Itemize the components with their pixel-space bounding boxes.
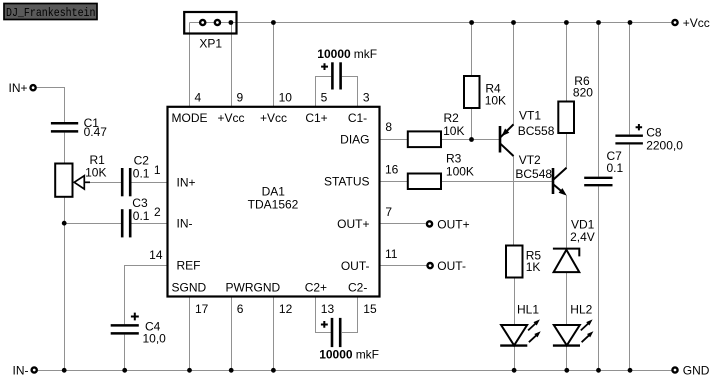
- svg-text:R2: R2: [444, 111, 460, 125]
- svg-text:STATUS: STATUS: [324, 175, 370, 189]
- svg-text:10000: 10000: [317, 47, 351, 61]
- svg-text:OUT-: OUT-: [341, 259, 370, 273]
- svg-text:14: 14: [149, 248, 163, 262]
- svg-text:HL2: HL2: [570, 302, 592, 316]
- svg-text:HL1: HL1: [517, 302, 539, 316]
- LED HL2: [553, 302, 594, 345]
- svg-text:0.47: 0.47: [84, 125, 108, 139]
- node junction pin6 GND: [229, 368, 234, 373]
- svg-text:4: 4: [195, 90, 202, 104]
- node junction C8 GND: [628, 368, 633, 373]
- wire VT2 emitter to VD1: [566, 196, 568, 249]
- terminal OUT-: [428, 259, 466, 273]
- svg-text:16: 16: [385, 163, 399, 177]
- svg-text:DJ_Frankeshtein: DJ_Frankeshtein: [6, 6, 96, 20]
- wire R2 to VT1 base: [441, 139, 499, 141]
- svg-text:C8: C8: [646, 126, 662, 140]
- svg-text:0.1: 0.1: [133, 209, 150, 223]
- svg-text:REF: REF: [177, 259, 201, 273]
- resistor R3: [408, 152, 474, 189]
- svg-text:OUT+: OUT+: [437, 217, 469, 231]
- capacitor 10000 mkF top: [317, 47, 377, 90]
- wire HL1 to GND: [514, 346, 516, 371]
- node junction C7 top: [596, 20, 601, 25]
- svg-text:8: 8: [385, 120, 392, 134]
- svg-text:IN-: IN-: [13, 363, 29, 377]
- wire pin15 bracket: [342, 297, 358, 333]
- svg-text:10000: 10000: [319, 347, 353, 361]
- capacitor C3: [122, 196, 150, 237]
- svg-text:3: 3: [363, 90, 370, 104]
- op-amp U1 IC DA1 TDA1562 body: [168, 107, 380, 297]
- wire +Vcc top rail: [190, 22, 672, 24]
- wire pin13 bracket: [316, 297, 332, 333]
- diode VD1 zener: [553, 218, 595, 273]
- svg-text:5: 5: [321, 90, 328, 104]
- svg-text:100K: 100K: [446, 165, 474, 179]
- node junction VT1 emitter rail: [511, 20, 516, 25]
- svg-text:mkF: mkF: [354, 47, 377, 61]
- svg-text:IN+: IN+: [8, 81, 27, 95]
- svg-text:C2: C2: [134, 154, 150, 168]
- wire HL2 to GND: [566, 346, 568, 371]
- terminal +Vcc: [672, 16, 709, 30]
- wire R5 to HL1: [514, 278, 516, 326]
- node junction HL2 GND: [564, 368, 569, 373]
- svg-text:6: 6: [237, 302, 244, 316]
- wire R4 bottom: [471, 108, 473, 140]
- wire C7 top: [598, 23, 600, 177]
- wire R6 top: [566, 23, 568, 102]
- svg-text:10K: 10K: [85, 165, 106, 179]
- svg-text:0.1: 0.1: [607, 161, 624, 175]
- svg-text:OUT+: OUT+: [337, 217, 369, 231]
- svg-text:10K: 10K: [485, 93, 506, 107]
- wire IN- to C3: [65, 223, 122, 225]
- svg-text:MODE: MODE: [172, 111, 208, 125]
- resistor R4: [464, 76, 506, 108]
- wire C2 to pin1: [131, 182, 167, 184]
- svg-text:11: 11: [385, 247, 398, 261]
- wire GND bottom rail: [38, 370, 671, 372]
- svg-text:C2-: C2-: [348, 281, 367, 295]
- wire REF to C4: [125, 266, 168, 325]
- node junction C4 GND: [122, 368, 127, 373]
- wire R1 wiper to C2: [88, 182, 121, 184]
- svg-text:OUT-: OUT-: [437, 259, 466, 273]
- wire pin17 drop: [189, 297, 191, 371]
- node junction C7 GND: [596, 368, 601, 373]
- wire OUT- stub: [380, 265, 427, 267]
- node junction XP1 out: [229, 20, 234, 25]
- svg-text:BC548: BC548: [515, 167, 552, 181]
- wire OUT+ stub: [380, 223, 426, 225]
- wire R3 to VT2 base: [441, 181, 552, 183]
- node junction R6 top: [564, 20, 569, 25]
- node junction IN- left: [62, 221, 67, 226]
- svg-text:10: 10: [279, 90, 293, 104]
- wire XP1 pin9 drop: [231, 23, 233, 107]
- svg-text:2200,0: 2200,0: [646, 139, 683, 153]
- svg-text:IN+: IN+: [177, 176, 196, 190]
- wire pin6 drop: [231, 297, 233, 371]
- capacitor 10000 mkF bottom: [319, 318, 379, 361]
- terminal GND: [672, 363, 709, 377]
- svg-text:17: 17: [195, 302, 209, 316]
- svg-text:820: 820: [573, 85, 593, 99]
- node junction R2 R4 VT1: [469, 137, 474, 142]
- svg-text:DA1: DA1: [262, 184, 286, 198]
- wire C8 bottom: [629, 145, 631, 371]
- svg-text:IN-: IN-: [177, 217, 193, 231]
- wire pin5 bracket: [316, 77, 332, 107]
- wire STATUS to R3: [380, 181, 408, 183]
- wire VT1 emitter to +Vcc: [513, 23, 515, 125]
- resistor R2: [408, 111, 465, 147]
- wire VT1 collector to R5: [513, 156, 515, 246]
- capacitor C2: [122, 154, 150, 197]
- wire C1 to R1: [64, 133, 66, 164]
- svg-text:10,0: 10,0: [143, 332, 167, 346]
- svg-text:PWRGND: PWRGND: [226, 281, 281, 295]
- terminal IN-: [13, 363, 37, 377]
- svg-text:12: 12: [279, 302, 293, 316]
- svg-text:DIAG: DIAG: [340, 133, 369, 147]
- capacitor C7: [584, 149, 623, 185]
- svg-text:13: 13: [321, 302, 335, 316]
- transistor VT1 BC558: [500, 109, 555, 157]
- wire C3 to pin2: [131, 223, 167, 225]
- node junction C8 top: [628, 20, 633, 25]
- svg-text:XP1: XP1: [199, 37, 222, 51]
- svg-text:TDA1562: TDA1562: [248, 198, 299, 212]
- wire C8 top: [629, 23, 631, 135]
- svg-text:GND: GND: [683, 363, 710, 377]
- wire pin10 drop: [273, 23, 275, 107]
- wire XP1 pin4 drop: [189, 23, 191, 107]
- LED HL1: [500, 302, 540, 345]
- svg-text:C2+: C2+: [305, 281, 327, 295]
- wire R1 to GND: [64, 197, 66, 371]
- svg-text:1K: 1K: [526, 260, 541, 274]
- svg-text:2,4V: 2,4V: [570, 230, 595, 244]
- wire pin12 drop: [273, 297, 275, 371]
- wire R4 top: [471, 23, 473, 77]
- wire VD1 to HL2: [566, 272, 568, 325]
- svg-text:2: 2: [154, 205, 161, 219]
- svg-text:1: 1: [154, 163, 161, 177]
- svg-text:C1-: C1-: [348, 111, 367, 125]
- svg-text:R3: R3: [446, 152, 462, 166]
- svg-text:+Vcc: +Vcc: [217, 111, 244, 125]
- resistor R5: [506, 246, 541, 278]
- svg-text:15: 15: [363, 302, 377, 316]
- wire DIAG to R2: [380, 139, 408, 141]
- terminal OUT+: [427, 217, 470, 231]
- node junction HL1 GND: [512, 368, 517, 373]
- svg-text:7: 7: [385, 205, 392, 219]
- wire R6 to VT2 collector: [566, 133, 568, 168]
- node junction pin12 GND: [271, 368, 276, 373]
- resistor R6: [558, 74, 593, 133]
- terminal IN+: [8, 81, 35, 95]
- transistor VT2 BC548: [515, 153, 566, 196]
- wire C4 to GND: [124, 335, 126, 371]
- connector XP1: [184, 12, 236, 51]
- wire IN+ to C1: [37, 88, 65, 123]
- svg-text:0.1: 0.1: [133, 167, 150, 181]
- svg-text:VT1: VT1: [519, 109, 541, 123]
- node junction GND left: [62, 368, 67, 373]
- svg-text:mkF: mkF: [356, 347, 379, 361]
- title box DJ_Frankeshtein: [4, 4, 97, 21]
- resistor R1 potentiometer: [55, 153, 106, 197]
- svg-text:+Vcc: +Vcc: [683, 16, 710, 30]
- capacitor C1: [51, 116, 107, 139]
- wire pin3 bracket: [342, 77, 358, 107]
- svg-text:9: 9: [237, 90, 244, 104]
- node junction pin10: [271, 20, 276, 25]
- svg-text:SGND: SGND: [172, 281, 207, 295]
- svg-text:+Vcc: +Vcc: [260, 111, 287, 125]
- capacitor C4: [111, 313, 166, 346]
- node junction R4 top: [469, 20, 474, 25]
- svg-text:BC558: BC558: [518, 124, 555, 138]
- node junction pin17 GND: [187, 368, 192, 373]
- svg-text:C1+: C1+: [305, 111, 327, 125]
- wire C7 bottom: [598, 186, 600, 370]
- svg-text:10K: 10K: [443, 124, 464, 138]
- svg-text:VT2: VT2: [519, 153, 541, 167]
- capacitor C8: [615, 124, 683, 153]
